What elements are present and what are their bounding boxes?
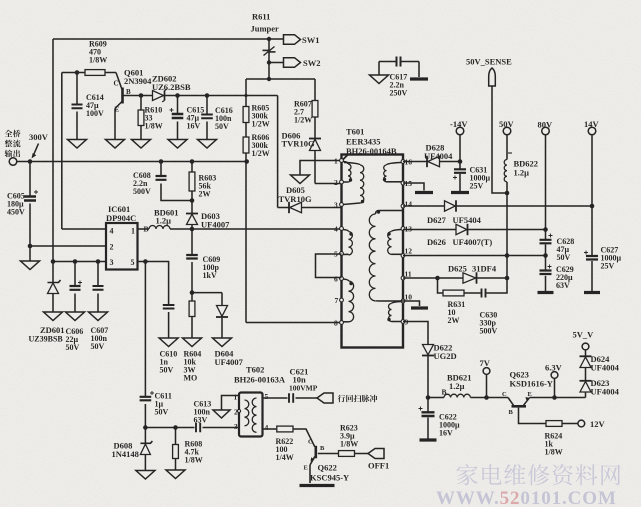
node C628 bottom	[543, 253, 548, 258]
ground C614	[68, 140, 87, 149]
capacitor C616	[206, 96, 208, 114]
capacitor C627	[591, 255, 593, 257]
wire T601 pin10 ground	[403, 301, 420, 306]
wire C605 ground stub	[29, 246, 31, 261]
pin 15 T601	[401, 181, 405, 185]
wire to IC601 pin4	[62, 228, 106, 230]
connector SW1	[284, 35, 301, 45]
node C622	[426, 395, 431, 400]
wire T602 pin5 to C621	[263, 397, 288, 399]
diode D628 UF4004	[426, 156, 428, 167]
transistor Q601 2N3904	[116, 73, 122, 90]
wire R607 column	[314, 79, 316, 184]
node SW2	[267, 60, 271, 64]
wire D622 to 7V node	[427, 356, 429, 398]
diode D604 UF4007	[217, 306, 228, 317]
pin 6 T601	[340, 277, 344, 281]
node startup join	[244, 94, 247, 97]
node 50V rail pin12	[505, 253, 510, 258]
capacitor C621	[289, 393, 293, 403]
resistor R604	[191, 293, 193, 301]
wire 14V rail	[591, 135, 593, 256]
pin 14 T601	[401, 204, 405, 208]
winding T602 left	[245, 400, 249, 426]
wire T601 pin16 to D628	[403, 161, 427, 163]
wire bottom row to T602	[145, 427, 194, 429]
wire C605 to IC601 pin2	[30, 245, 106, 247]
diode D623 UF4004	[580, 380, 592, 382]
diode D603 UF4007	[191, 201, 193, 214]
ground C610	[159, 338, 178, 347]
node C611 bottom	[143, 425, 148, 430]
wire T601 pin13 to 80V rail	[403, 229, 456, 231]
wire left vertical to IC601 pin3 rail	[52, 39, 54, 262]
diode D605 TVR10G	[288, 202, 290, 213]
terminal 12V	[562, 423, 578, 425]
zener ZD602 UZ6.2BSB	[153, 91, 164, 101]
terminal 50V	[503, 127, 511, 135]
label input chinese	[5, 130, 13, 137]
ground C629	[538, 291, 554, 294]
capacitor C608	[160, 162, 162, 176]
wire SW column	[268, 39, 270, 79]
watermark line1	[457, 464, 478, 485]
winding T601 pin6-8	[343, 279, 349, 281]
winding T601 pin4-5	[343, 230, 349, 232]
resistor R623	[339, 451, 355, 457]
node D625 anode	[435, 276, 440, 281]
node pin5 junction	[143, 259, 148, 264]
inductor BD622	[506, 135, 508, 160]
capacitor C607	[97, 262, 99, 286]
pin 9 T601	[401, 320, 405, 324]
wire T601 pin9 down	[403, 322, 428, 345]
capacitor C628	[545, 230, 547, 240]
pin 8 T601	[340, 321, 344, 325]
pin 13 T601	[401, 227, 405, 231]
transistor Q622 KSC945-Y	[314, 446, 317, 459]
pin 16 T601	[401, 160, 405, 164]
resistor R603	[191, 162, 193, 173]
node C615 top	[175, 93, 180, 98]
wire T602 pin1 ground	[222, 396, 240, 411]
resistor R624	[546, 421, 562, 427]
node C605 bottom	[28, 244, 33, 249]
transformer T601 box	[342, 155, 404, 348]
pin 11 T601	[401, 276, 405, 280]
pin 5 T601	[340, 252, 344, 256]
ground T602 pin1	[213, 410, 230, 418]
resistor R622	[277, 426, 293, 432]
node C605	[28, 159, 33, 164]
diode D625 31DF4	[463, 273, 476, 283]
ground T601 pin10	[411, 306, 428, 309]
node 6.3V	[552, 395, 557, 400]
wire T602 pin4 to R622	[263, 428, 277, 430]
pin 4 T601	[340, 227, 344, 231]
node C608	[159, 159, 164, 164]
pin 10 T601	[401, 299, 405, 303]
terminal 5V_V	[585, 350, 587, 356]
ground C622	[420, 438, 437, 441]
diode D608 1N4148	[144, 428, 146, 443]
diode D627 UF5404	[445, 201, 456, 211]
connector SW2	[284, 58, 301, 68]
ground C617 left	[370, 75, 389, 84]
wire R623 to OFF1	[355, 453, 369, 455]
pin 2 T601	[340, 180, 344, 184]
capacitor C614	[76, 73, 78, 105]
node R603 bottom	[190, 198, 195, 203]
node R610 top	[139, 93, 144, 98]
capacitor C610	[145, 262, 168, 305]
terminal input	[9, 158, 17, 166]
ground R610	[132, 140, 151, 149]
wire 50V_SENSE	[492, 86, 507, 193]
ground Q601 emitter	[106, 140, 125, 149]
wire T601 pin15 ground	[403, 183, 424, 191]
resistor R610	[140, 96, 142, 111]
wire IC601 pin5 column	[138, 261, 146, 263]
capacitor C629	[545, 256, 547, 271]
winding T601 pin13-12	[392, 230, 402, 232]
node junction ZD601 rail	[51, 259, 56, 264]
node SW1	[267, 37, 271, 41]
wire IC601 pin1 to T601 pin4	[138, 228, 150, 230]
capacitor C606	[74, 262, 76, 286]
ground T601 pin15	[415, 191, 433, 194]
wire D623 to D624	[585, 368, 587, 381]
terminal 80V	[542, 127, 550, 135]
winding T601 pin16-15	[387, 163, 402, 166]
node 50V_SENSE arrow	[489, 68, 496, 86]
winding T602 right	[252, 398, 256, 432]
capacitor C613	[196, 423, 200, 433]
terminal 6.3V	[554, 378, 556, 397]
node SW bottom	[267, 77, 271, 81]
resistor R605	[243, 107, 249, 123]
zener ZD601 UZ39BSB	[52, 262, 54, 283]
capacitor C611	[144, 262, 146, 397]
ground C631	[451, 191, 469, 194]
wire T601 pin14 to 14V rail	[403, 205, 445, 207]
diode D624 UF4004	[580, 355, 592, 357]
resistor R608	[175, 428, 177, 445]
wire Q601 base row	[123, 95, 278, 97]
resistor R607	[312, 101, 318, 118]
wire to T601 pin8	[246, 322, 340, 324]
node R608 top	[173, 425, 178, 430]
capacitor C609	[191, 229, 193, 255]
wire R609 row	[62, 72, 116, 74]
wire 80V rail	[545, 135, 547, 230]
capacitor C605 180u 450V	[29, 162, 31, 197]
terminal -14V	[459, 135, 461, 162]
wire T601 pin5-6 jumper	[316, 254, 342, 278]
ground R604	[183, 338, 202, 347]
wire SW1 stub	[269, 38, 284, 40]
pin 3 T601	[340, 203, 344, 207]
wire Vcc vertical x61.8	[61, 73, 63, 230]
capacitor C622	[427, 398, 429, 412]
node 300V rail to R606	[244, 159, 249, 164]
ground C617 right	[410, 77, 428, 80]
wire T601 pin1 to ground	[300, 161, 342, 176]
capacitor C630	[482, 289, 486, 298]
inductor BD621	[428, 397, 444, 399]
ground C606	[66, 312, 85, 321]
ground C605	[21, 261, 40, 270]
ground D604	[213, 338, 232, 347]
diode D606 TVR10G	[309, 138, 321, 140]
diode D626 UF4007(T)	[456, 224, 467, 234]
wire T601 pin12 to C628	[403, 255, 546, 257]
node -14V	[458, 159, 463, 164]
wire D628 to -14V	[440, 161, 461, 163]
resistor R609	[85, 70, 105, 76]
transistor Q623 KSD1616-Y	[508, 398, 514, 406]
connector horizontal flyback pulse	[317, 393, 333, 403]
node D603 anode	[190, 227, 195, 232]
ground C627	[584, 291, 600, 294]
transformer T602 box	[239, 393, 263, 437]
wire SW2 stub	[269, 62, 284, 64]
ground T601 pin1	[291, 175, 310, 184]
ground ZD601	[44, 312, 63, 321]
node 80V rail join	[543, 227, 548, 232]
terminal 14V	[588, 127, 596, 135]
ground C615	[168, 140, 187, 149]
jumper R611 symbol	[264, 47, 275, 56]
capacitor C631	[459, 162, 461, 169]
wire startup column x246 through R605 R606 down to T601 pin8	[245, 79, 247, 323]
wire diode column	[585, 392, 587, 397]
capacitor C615	[177, 96, 179, 114]
node R603	[190, 159, 195, 164]
terminal 7V	[486, 375, 488, 398]
connector OFF1	[368, 449, 384, 459]
pin 7 T601	[340, 298, 344, 302]
wire D605 column	[277, 96, 279, 208]
ground C607	[89, 312, 108, 321]
ground D608	[136, 471, 155, 480]
wire 50V rail down	[506, 193, 508, 278]
winding T601 pin1-2	[343, 162, 348, 165]
wire top standby line	[53, 38, 269, 40]
wire to D604	[192, 293, 222, 305]
wire IC601 pin3 rail	[53, 261, 106, 263]
wire snubber R631 C630	[438, 278, 444, 293]
node C614 top	[75, 70, 80, 75]
resistor R606	[243, 137, 249, 153]
ground C616	[198, 140, 217, 149]
capacitor C617	[379, 61, 396, 63]
node 14V rail join	[590, 204, 595, 209]
node 50V junction	[505, 191, 510, 196]
wire R622 to Q622	[293, 429, 315, 447]
wire T601 pin11 to D625	[403, 277, 463, 279]
winding T601 pin2-3	[344, 163, 360, 166]
ground Q622 emitter	[300, 484, 335, 487]
node C609 bottom	[190, 290, 195, 295]
arrow 300V pointer	[34, 144, 39, 156]
resistor R631	[443, 290, 464, 296]
pin 1 T601	[340, 159, 344, 163]
pin 12 T601	[401, 254, 405, 258]
node C616 top	[205, 93, 210, 98]
ground R608	[166, 470, 185, 479]
diode D622 UG2D	[423, 345, 434, 355]
winding T601 pin10-9	[392, 302, 402, 304]
wire 300V rail	[17, 161, 247, 163]
wire startup row y79	[246, 78, 315, 80]
wire C621 to connector	[296, 397, 318, 399]
wire Q623 emitter to diodes	[530, 397, 586, 399]
op-amp IC601 DP904C box	[106, 223, 138, 270]
node 7V	[484, 395, 489, 400]
winding T601 center pin14-10	[376, 211, 404, 215]
node D625 cathode	[505, 276, 510, 281]
